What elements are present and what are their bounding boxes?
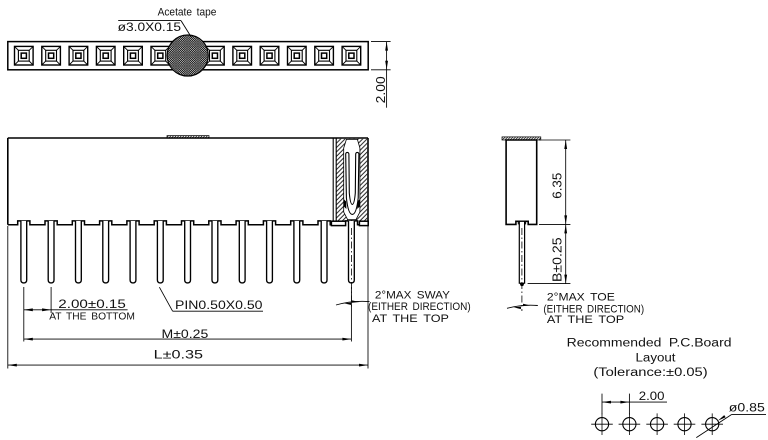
svg-text:Acetate tape: Acetate tape	[158, 7, 217, 19]
svg-text:ø0.85: ø0.85	[729, 400, 765, 414]
svg-text:AT THE TOP: AT THE TOP	[372, 313, 449, 325]
svg-text:6.35: 6.35	[550, 173, 564, 199]
svg-text:2°MAX TOE: 2°MAX TOE	[547, 291, 615, 303]
svg-text:M±0.25: M±0.25	[162, 329, 209, 341]
svg-text:2.00±0.15: 2.00±0.15	[58, 299, 126, 311]
svg-text:Recommended P.C.Board: Recommended P.C.Board	[567, 337, 732, 349]
svg-text:(Tolerance:±0.05): (Tolerance:±0.05)	[593, 367, 708, 379]
svg-text:B±0.25: B±0.25	[550, 237, 564, 282]
svg-text:PIN0.50X0.50: PIN0.50X0.50	[175, 300, 263, 312]
svg-text:AT THE TOP: AT THE TOP	[547, 314, 624, 326]
svg-text:2.00: 2.00	[374, 76, 388, 103]
svg-text:2.00: 2.00	[639, 389, 665, 403]
svg-text:2°MAX SWAY: 2°MAX SWAY	[375, 290, 451, 302]
svg-text:ø3.0X0.15: ø3.0X0.15	[118, 20, 182, 34]
svg-text:Layout: Layout	[636, 352, 677, 364]
svg-text:AT THE BOTTOM: AT THE BOTTOM	[49, 311, 135, 323]
svg-text:L±0.35: L±0.35	[154, 349, 203, 361]
svg-text:(EITHER DIRECTION): (EITHER DIRECTION)	[368, 301, 471, 313]
